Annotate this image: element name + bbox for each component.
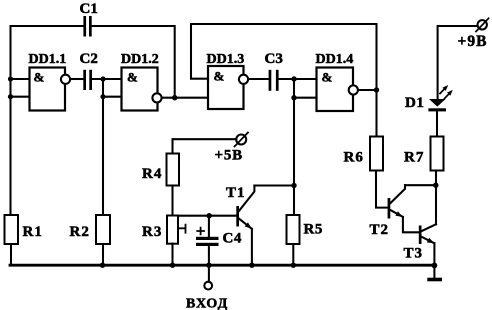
svg-text:&: &	[322, 70, 333, 85]
wire: R6 to T2 base	[376, 171, 388, 208]
label DD1.2 & symbol	[127, 70, 138, 85]
label D1	[405, 95, 424, 111]
capacitor C3	[269, 70, 279, 91]
wire: base line R3/C4/T1	[173, 215, 237, 217]
label R3	[142, 224, 162, 240]
svg-text:DD1.1: DD1.1	[29, 52, 67, 67]
label input	[186, 297, 228, 310]
wire: C2 to DD1.2 input A	[92, 78, 122, 80]
wire: R4 to R3	[171, 186, 173, 216]
wire: junction down to R6	[375, 90, 377, 137]
wire: DD1.1 output to C2	[70, 78, 83, 80]
wire: T2 collector to R7 line	[405, 184, 436, 186]
node: DD1.1 input A on rail	[8, 76, 13, 81]
label DD1.4	[316, 52, 354, 67]
resistor R7	[431, 137, 444, 171]
terminal input	[204, 282, 212, 290]
svg-text:+5В: +5В	[215, 148, 243, 164]
wire: node to DD1.4 input B	[294, 97, 317, 99]
label +9V	[458, 33, 488, 50]
svg-text:+9В: +9В	[458, 33, 488, 50]
label DD1.1	[29, 52, 67, 67]
label C1	[80, 1, 98, 17]
wire: D1 cathode to R7	[436, 111, 438, 136]
node: T1 emitter on rail	[249, 263, 254, 268]
node: C3 junction B	[291, 95, 296, 100]
resistor R4	[167, 154, 180, 186]
svg-text:C3: C3	[265, 51, 283, 67]
resistor R6	[370, 137, 383, 171]
label DD1.3	[207, 52, 245, 67]
svg-text:&: &	[214, 69, 225, 84]
node: C2/R2 junction top	[100, 76, 105, 81]
wire: DD1.2 input B pin	[103, 96, 122, 98]
svg-text:R5: R5	[304, 222, 323, 238]
svg-text:&: &	[127, 70, 138, 85]
wire: C3 to node	[279, 78, 294, 80]
svg-text:D1: D1	[405, 95, 424, 111]
wire: R5 to rail	[292, 244, 294, 265]
svg-text:T1: T1	[226, 185, 246, 201]
svg-text:&: &	[34, 70, 45, 85]
wire: R1 to rail	[10, 244, 12, 265]
wire: R4 to +5V terminal	[173, 139, 237, 153]
terminal +5V	[235, 133, 249, 147]
wire: R2 branch vertical	[102, 79, 104, 215]
wire: left rail / C1 feedback left	[11, 26, 84, 215]
gate DD1.4	[317, 68, 358, 112]
wire: R2 to rail	[102, 244, 104, 265]
gate DD1.2	[122, 68, 162, 111]
gate DD1.1	[30, 68, 71, 111]
wire: node to DD1.4 input A	[294, 78, 317, 80]
resistor R5	[287, 215, 300, 244]
label +5V	[215, 148, 243, 164]
label T1	[226, 185, 246, 201]
label R6	[344, 150, 364, 166]
resistor R1	[5, 215, 19, 244]
transistor T3	[419, 224, 436, 277]
terminal +9V	[476, 18, 489, 31]
wire: T1 collector to node	[254, 184, 294, 186]
wire: DD1.1 input pins	[11, 79, 30, 97]
wire: R3 to ground rail	[171, 244, 173, 266]
label DD1.1 & symbol	[34, 70, 45, 85]
svg-text:R2: R2	[70, 224, 90, 240]
LED D1	[428, 85, 452, 111]
svg-text:R4: R4	[142, 166, 162, 182]
wire: node vertical to R5	[293, 79, 295, 215]
transistor T1	[236, 186, 254, 266]
svg-text:C4: C4	[223, 231, 242, 247]
resistor R2	[96, 215, 110, 244]
wire: DD1.3 output to C3	[248, 78, 268, 80]
node: DD1.4 output junction	[374, 87, 379, 92]
svg-text:DD1.3: DD1.3	[207, 52, 245, 67]
label DD1.4 & symbol	[322, 70, 333, 85]
node: DD1.2 input B junction	[100, 94, 105, 99]
svg-text:R6: R6	[344, 150, 364, 166]
svg-text:C1: C1	[80, 1, 98, 17]
label R5	[304, 222, 323, 238]
label R7	[404, 150, 424, 166]
label DD1.3 & symbol	[214, 69, 225, 84]
capacitor C4 (electrolytic)	[196, 216, 219, 282]
svg-text:C2: C2	[80, 51, 98, 67]
wire: DD1.2 output to DD1.3 input B	[162, 97, 208, 99]
label R1	[23, 224, 43, 240]
svg-text:DD1.2: DD1.2	[121, 52, 159, 67]
wire: C1 feedback right, down to DD1.2 output	[92, 26, 175, 98]
node: input node on rail	[206, 263, 211, 268]
svg-text:R3: R3	[142, 224, 162, 240]
svg-text:ВХОД: ВХОД	[186, 297, 228, 310]
wire: feedback loop 2 (DD1.3 input A to DD1.4 output)	[191, 24, 377, 90]
resistor R3 (trimmer)	[167, 216, 186, 244]
label R4	[142, 166, 162, 182]
wire: R7 to T3 collector	[435, 171, 437, 225]
node: R5 bottom	[291, 263, 296, 268]
wire: bottom rail	[10, 264, 435, 267]
node: DD1.1 input B on rail	[8, 94, 13, 99]
node: T2 collector / R7 junction	[433, 183, 438, 188]
label DD1.2	[121, 52, 159, 67]
capacitor C2	[83, 70, 92, 90]
svg-text:R1: R1	[23, 224, 43, 240]
svg-text:DD1.4: DD1.4	[316, 52, 354, 67]
node: collector/R5 junction	[291, 183, 296, 188]
label C4	[223, 231, 242, 247]
svg-text:R7: R7	[404, 150, 424, 166]
capacitor C1	[83, 16, 91, 37]
label R2	[70, 224, 90, 240]
label T3	[404, 246, 424, 262]
gate DD1.3	[208, 66, 248, 109]
svg-text:T3: T3	[404, 246, 424, 262]
wire: DD1.4 output	[358, 89, 377, 91]
node: R3 bottom	[170, 263, 175, 268]
node: R2 bottom	[100, 263, 105, 268]
wire: +9V supply to D1 anode	[438, 26, 478, 99]
label C2	[80, 51, 98, 67]
transistor T2	[388, 185, 419, 232]
ground	[427, 278, 442, 282]
label T2	[370, 222, 390, 238]
node: rail end / T3 emitter	[432, 263, 438, 269]
node: feedback loop 1 junction	[172, 95, 177, 100]
svg-text:T2: T2	[370, 222, 390, 238]
label C3	[265, 51, 283, 67]
node: C4 top junction	[207, 213, 212, 218]
node: C3 junction A	[291, 76, 296, 81]
